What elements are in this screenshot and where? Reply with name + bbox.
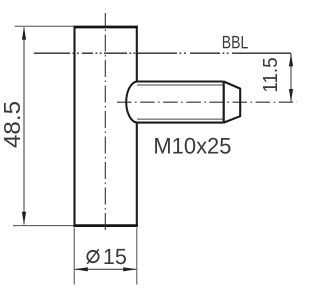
dimension 48.5 extension line top — [15, 25, 74, 27]
svg-text:11.5: 11.5 — [259, 57, 282, 93]
bolt rounded dome end — [126, 82, 137, 123]
dimension dia 15 arrow right — [123, 267, 136, 271]
BBL phantom line — [34, 52, 291, 54]
dimension dia 15 arrow left — [75, 267, 88, 271]
dimension dia 15 line — [75, 268, 136, 270]
bolt horizontal centerline — [117, 101, 297, 103]
hinge cylinder body outline — [74, 26, 138, 227]
bolt chamfered tip cone — [224, 82, 241, 123]
svg-text:48.5: 48.5 — [0, 101, 25, 148]
bolt M10x25 body — [137, 82, 224, 123]
dimension dia 15 extension line left — [73, 228, 75, 285]
dimension 48.5 arrow down — [22, 212, 26, 225]
cylinder vertical centerline — [104, 13, 106, 233]
dimension 48.5 extension line bottom — [13, 225, 74, 227]
dimension 11.5 arrow up — [289, 54, 293, 67]
dimension 11.5 line — [290, 53, 292, 102]
svg-text:BBL: BBL — [222, 32, 249, 52]
dimension 48.5 line — [23, 28, 25, 225]
dimension 48.5 arrow up — [22, 27, 26, 40]
dimension dia 15 extension line right — [136, 228, 138, 285]
dimension 11.5 arrow down — [289, 89, 293, 102]
svg-text:M10x25: M10x25 — [153, 133, 231, 158]
dimension dia 15 text diameter symbol — [87, 249, 99, 264]
svg-text:15: 15 — [103, 244, 127, 269]
